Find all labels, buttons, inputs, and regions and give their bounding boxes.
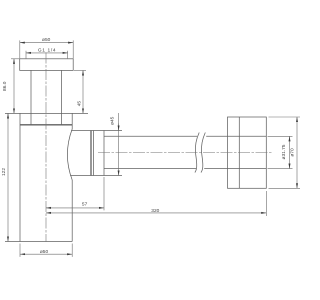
body left wall bbox=[19, 113, 21, 241]
dim 320 line bbox=[46, 212, 266, 214]
dim d45 line bbox=[118, 113, 120, 176]
body rim nut line bbox=[20, 124, 72, 126]
dim 57 ext bbox=[103, 177, 105, 210]
body right wall upper bbox=[71, 113, 73, 129]
dim 57 line bbox=[46, 207, 104, 209]
outlet boss bottom bbox=[70, 175, 122, 177]
svg-text:320: 320 bbox=[151, 208, 159, 214]
dim d50 top line bbox=[20, 42, 73, 44]
dim d50 top ext right bbox=[72, 40, 74, 58]
body right wall lower bbox=[71, 180, 73, 242]
dim G1 1/4 line bbox=[26, 52, 68, 54]
inlet pipe left wall bbox=[30, 70, 32, 124]
vertical centerline bbox=[45, 53, 47, 243]
wall flange inner edge bbox=[238, 117, 240, 188]
dim 45 ext bbox=[74, 69, 86, 71]
pipe break mark left bbox=[195, 133, 199, 173]
dim 86 ext top bbox=[11, 58, 19, 60]
dim d70 line bbox=[296, 117, 298, 188]
dim d31.75 line bbox=[289, 136, 291, 168]
dim d50 bottom ext left bbox=[19, 244, 21, 257]
dim d70 ext top bbox=[269, 116, 301, 118]
svg-text:G1 1/4: G1 1/4 bbox=[38, 48, 56, 54]
dim d50 bottom line bbox=[20, 253, 72, 255]
dim G1 1/4 ext left bbox=[25, 51, 27, 59]
dim G1 1/4 ext right bbox=[67, 51, 69, 59]
top basin flange bbox=[20, 59, 73, 71]
dim 320 ext bbox=[265, 191, 267, 216]
compression nut ring bbox=[93, 131, 95, 176]
body bottom line bbox=[5, 241, 72, 243]
dim d70 ext bottom bbox=[269, 187, 301, 189]
compression nut right face bbox=[103, 131, 105, 176]
dim d31.75 ext bottom bbox=[268, 168, 293, 170]
dim 86 line bbox=[13, 59, 15, 114]
dim d50 bottom ext right bbox=[71, 244, 73, 257]
outlet tube bottom bbox=[104, 168, 196, 170]
dim 122 line bbox=[7, 113, 9, 241]
inlet pipe right wall bbox=[61, 70, 63, 124]
dim 45 line bbox=[82, 70, 84, 113]
svg-text:86.0: 86.0 bbox=[2, 81, 8, 91]
body top line bbox=[5, 112, 88, 114]
svg-text:ø70: ø70 bbox=[289, 148, 295, 157]
outlet tube bottom right bbox=[204, 168, 266, 170]
dim d45 arrow upper (points down) bbox=[118, 124, 120, 131]
dim d50 top ext left bbox=[19, 40, 21, 58]
svg-text:ø50: ø50 bbox=[42, 37, 51, 43]
svg-text:57: 57 bbox=[82, 202, 88, 208]
svg-text:ø31.75: ø31.75 bbox=[281, 144, 287, 159]
svg-text:122: 122 bbox=[1, 168, 7, 176]
outlet tube top right bbox=[206, 135, 266, 137]
outlet tube top bbox=[104, 135, 197, 137]
body outlet intersection arc bbox=[67, 129, 72, 180]
horizontal centerline bbox=[98, 152, 272, 154]
svg-text:45: 45 bbox=[76, 101, 82, 107]
svg-text:ø45: ø45 bbox=[110, 116, 116, 125]
svg-text:ø50: ø50 bbox=[40, 249, 49, 255]
outlet boss top bbox=[71, 130, 122, 132]
dim d31.75 ext top bbox=[268, 135, 293, 137]
wall flange bbox=[228, 117, 267, 188]
pipe break mark right bbox=[201, 133, 205, 173]
compression nut face bbox=[90, 131, 92, 176]
